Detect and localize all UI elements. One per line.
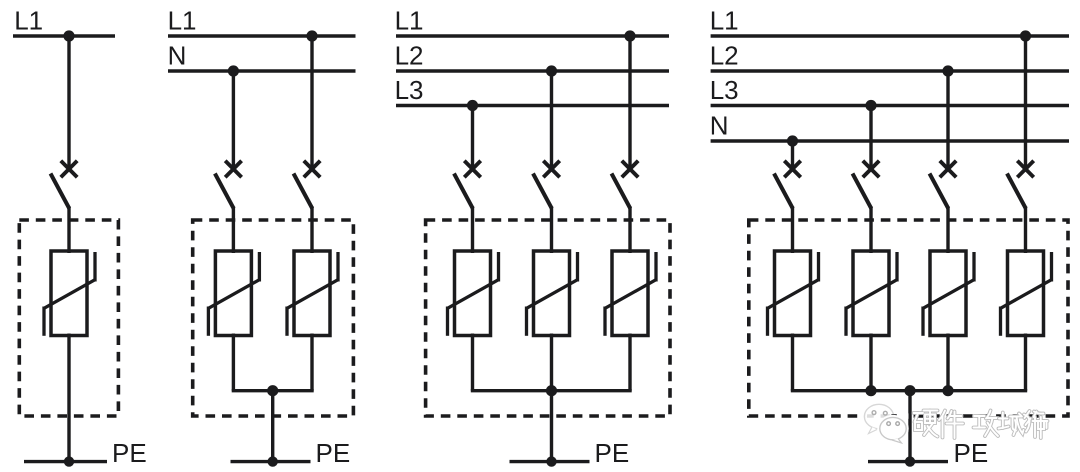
wire varistor bottom to common bar (group 2 wire 2) [310,334,313,391]
SPD enclosure dashed box (group 1) [19,220,118,416]
wire varistor bottom to common bar (group 4 wire 1) [791,334,794,391]
wire switch to varistor top (group 4 wire 3) [946,207,949,254]
disconnector switch S4.3 (x-mark and blade) [930,161,957,209]
PE conductor line (group 2) [231,460,311,463]
label L2 (group 4) [710,40,739,70]
wire switch to varistor top (group 4 wire 2) [869,207,872,254]
SPD enclosure dashed box (group 2) [193,220,354,416]
disconnector switch S3.3 (x-mark and blade) [612,161,639,209]
wire switch to varistor top (group 3 wire 2) [550,207,553,254]
bus line N (group 2) [168,69,356,72]
wire varistor bottom to common bar (group 3 wire 1) [471,334,474,391]
watermark logo: chat bubble large [864,404,893,433]
node tap junction on bus (group 1 wire 1) [63,30,74,41]
disconnector switch S3.1 (x-mark and blade) [454,161,481,209]
node tap junction on bus (group 4 wire 3) [942,65,953,76]
wire drop from bus to switch (group 1 wire 1) [67,36,70,170]
bus line L1 (group 4) [711,34,1069,37]
svg-text:PE: PE [112,438,147,468]
wire drop from bus to switch (group 2 wire 1) [232,71,235,170]
watermark text glyph 城 [999,413,1024,436]
disconnector switch S4.2 (x-mark and blade) [853,161,880,209]
wire varistor bottom to common bar (group 4 wire 2) [869,334,872,391]
junction dot on common bar (group 3) [546,385,557,396]
wire varistor bottom to common bar (group 4 wire 4) [1024,334,1027,391]
label L3 (group 4) [710,75,739,105]
wire drop from bus to switch (group 4 wire 1) [791,141,794,170]
label L1 (group 4) [710,5,739,35]
label PE (group 1) [112,438,147,468]
svg-text:L1: L1 [14,5,43,35]
wire drop from bus to switch (group 3 wire 2) [550,71,553,170]
disconnector switch S4.1 (x-mark and blade) [774,161,801,209]
junction dot on common bar (group 4) [904,385,915,396]
svg-text:N: N [168,40,187,70]
junction dot on common bar (group 2) [267,385,278,396]
wire switch to varistor top (group 2 wire 1) [232,207,235,254]
node tap junction on bus (group 3 wire 1) [467,100,478,111]
varistor RV4.1 (MOV surge arrester) [768,251,819,336]
disconnector switch S4.4 (x-mark and blade) [1007,161,1034,209]
svg-text:PE: PE [595,438,630,468]
svg-text:L1: L1 [168,5,197,35]
svg-text:L1: L1 [710,5,739,35]
wire drop from bus to switch (group 4 wire 2) [869,106,872,170]
varistor RV2.2 (MOV surge arrester) [287,251,338,336]
bus line L3 (group 4) [711,104,1069,107]
wire varistor bottom to PE (group 1) [67,334,70,462]
node tap junction on bus (group 3 wire 2) [546,65,557,76]
node tap junction on bus (group 4 wire 4) [1020,30,1031,41]
svg-text:L1: L1 [395,5,424,35]
watermark: black dash fragment beside bubbles [891,413,908,418]
bus line L2 (group 4) [711,69,1069,72]
svg-text:L3: L3 [710,75,739,105]
label N (group 2) [168,40,187,70]
node tap junction on bus (group 2 wire 1) [228,65,239,76]
wire drop from bus to switch (group 3 wire 3) [628,36,631,170]
disconnector switch S3.2 (x-mark and blade) [533,161,560,209]
wire drop from bus to switch (group 2 wire 2) [310,36,313,170]
label L3 (group 3) [395,75,424,105]
PE node junction dot (group 3) [546,456,556,466]
wire common bar to PE (group 3) [550,391,553,462]
bus line L1 (group 1) [13,34,115,37]
bus line N (group 4) [711,139,1069,142]
wire varistor bottom to common bar (group 2 wire 1) [232,334,235,391]
wire switch to varistor top (group 2 wire 2) [310,207,313,254]
wire switch to varistor top (group 3 wire 1) [471,207,474,254]
PE conductor line (group 1) [24,460,107,463]
junction dot bar/L3 wire (group 4) [865,385,876,396]
wire switch to varistor top (group 3 wire 3) [628,207,631,254]
wire varistor bottom to common bar (group 4 wire 3) [946,334,949,391]
label PE (group 3) [595,438,630,468]
watermark text glyph 攻 [974,411,999,437]
SPD enclosure dashed box (group 4) [749,220,1068,416]
varistor RV3.2 (MOV surge arrester) [527,251,578,336]
watermark text glyph 狮 [1024,411,1048,438]
common bonding bar (group 2) [232,389,314,392]
wire switch to varistor top (group 4 wire 1) [791,207,794,254]
disconnector switch S2.1 (x-mark and blade) [215,161,242,209]
node tap junction on bus (group 2 wire 2) [306,30,317,41]
svg-text:L3: L3 [395,75,424,105]
PE node junction dot (group 4) [905,456,915,466]
varistor RV2.1 (MOV surge arrester) [208,251,259,336]
watermark logo: chat bubble small [880,417,906,443]
label PE (group 2) [316,438,351,468]
SPD enclosure dashed box (group 3) [426,220,670,416]
junction dot bar/L2 wire (group 4) [942,385,953,396]
wire varistor bottom to common bar (group 3 wire 3) [628,334,631,391]
varistor RV4.2 (MOV surge arrester) [846,251,897,336]
node tap junction on bus (group 4 wire 1) [787,135,798,146]
wire drop from bus to switch (group 4 wire 4) [1024,36,1027,170]
wire drop from bus to switch (group 4 wire 3) [946,71,949,170]
bus line L3 (group 3) [396,104,669,107]
PE conductor line (group 3) [510,460,590,463]
disconnector switch S2.2 (x-mark and blade) [294,161,321,209]
svg-text:L2: L2 [710,40,739,70]
common bonding bar (group 3) [471,389,632,392]
bus line L1 (group 3) [396,34,669,37]
common bonding bar (group 4) [791,389,1027,392]
label L1 (group 1) [14,5,43,35]
wire common bar to PE (group 2) [271,391,274,462]
varistor RV4.4 (MOV surge arrester) [1001,251,1052,336]
watermark text glyph 硬 [914,411,938,437]
varistor RV1.1 (MOV surge arrester) [44,251,95,336]
label N (group 4) [710,110,729,140]
label L1 (group 2) [168,5,197,35]
varistor RV3.1 (MOV surge arrester) [448,251,499,336]
svg-text:PE: PE [954,438,989,468]
varistor RV4.3 (MOV surge arrester) [923,251,974,336]
label PE (group 4) [954,438,989,468]
wire common bar to PE (group 4) [908,391,911,462]
watermark text glyph 件 [939,411,963,439]
bus line L1 (group 2) [168,34,356,37]
wire varistor bottom to common bar (group 3 wire 2) [550,334,553,391]
label L1 (group 3) [395,5,424,35]
PE conductor line (group 4) [868,460,948,463]
wire drop from bus to switch (group 3 wire 1) [471,106,474,170]
svg-text:L2: L2 [395,40,424,70]
node tap junction on bus (group 3 wire 3) [624,30,635,41]
PE node junction dot (group 1) [64,456,74,466]
PE node junction dot (group 2) [268,456,278,466]
node tap junction on bus (group 4 wire 2) [865,100,876,111]
svg-text:PE: PE [316,438,351,468]
wire switch to varistor top (group 1 wire 1) [67,207,70,254]
varistor RV3.3 (MOV surge arrester) [605,251,656,336]
bus line L2 (group 3) [396,69,669,72]
disconnector switch S1.1 (x-mark and blade) [51,161,78,209]
label L2 (group 3) [395,40,424,70]
wire switch to varistor top (group 4 wire 4) [1024,207,1027,254]
svg-text:N: N [710,110,729,140]
